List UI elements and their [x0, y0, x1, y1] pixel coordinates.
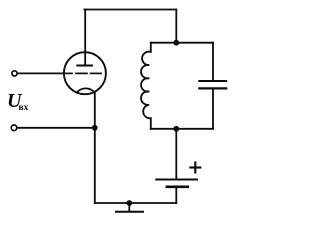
- wire: cathode lead and left vertical: [94, 92, 96, 203]
- wire: capacitor top lead: [212, 43, 214, 80]
- node: tank bottom junction: [173, 126, 179, 132]
- wire: capacitor bottom lead: [212, 89, 214, 128]
- wire: tank bottom: [151, 128, 213, 130]
- ground: [128, 203, 130, 211]
- anode bar of triode: [77, 65, 92, 67]
- battery long plate (+): [156, 179, 197, 181]
- wire: bottom terminal to junction: [17, 127, 95, 129]
- input terminal (bottom): [11, 125, 17, 131]
- node: ground junction: [126, 200, 132, 206]
- input terminal (top): [12, 71, 17, 76]
- node: tank top junction: [173, 40, 179, 46]
- node: cathode / input junction: [92, 125, 98, 131]
- svg-text:вх: вх: [19, 103, 29, 113]
- wire: right vertical drop to tank: [175, 10, 177, 43]
- wire: battery bottom lead: [175, 187, 177, 203]
- triode tube envelope: [64, 52, 106, 94]
- plus label: [190, 163, 200, 173]
- cathode arc of triode: [77, 88, 94, 92]
- wire: top horizontal: [84, 9, 176, 11]
- wire: tank top: [151, 42, 213, 44]
- capacitor C plates: [199, 80, 226, 82]
- battery short plate (-): [167, 186, 188, 189]
- wire: battery top lead: [175, 129, 177, 179]
- wire: anode lead up: [84, 10, 86, 66]
- grid (dashed) of triode: [64, 72, 101, 74]
- wire: top terminal to grid: [18, 72, 65, 74]
- inductor L (5 loops): [141, 43, 151, 129]
- wire: bottom horizontal: [95, 202, 176, 204]
